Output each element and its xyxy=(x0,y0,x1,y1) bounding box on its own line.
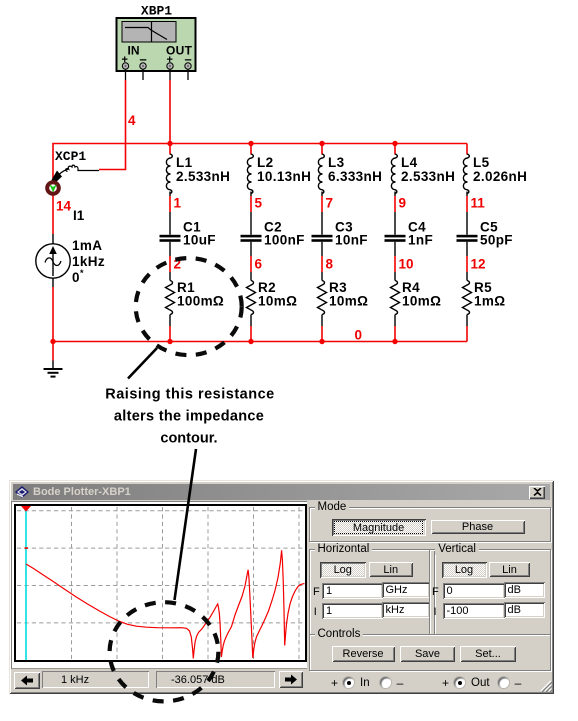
Mode group box xyxy=(309,507,552,543)
svg-text:2.533nH: 2.533nH xyxy=(176,169,230,184)
wire branch 5 top xyxy=(466,144,468,155)
op-amp-style instrument XBP1 (Bode plotter icon) xyxy=(117,18,196,71)
label F horizontal xyxy=(313,586,320,598)
pin stub OUT+ xyxy=(169,69,171,80)
svg-text:10mΩ: 10mΩ xyxy=(402,294,441,309)
wire junction at (251,143.5) xyxy=(248,141,253,146)
wire node 2 segment xyxy=(169,242,171,281)
svg-text:1mΩ: 1mΩ xyxy=(474,294,505,309)
svg-text:2.026nH: 2.026nH xyxy=(473,169,527,184)
button Log vertical (pressed) xyxy=(442,562,487,579)
capacitor C4 labels xyxy=(408,220,433,248)
capacitor C2 labels xyxy=(264,220,305,248)
svg-text:100nF: 100nF xyxy=(264,233,305,248)
label I horizontal xyxy=(314,606,317,618)
status field magnitude xyxy=(156,671,275,688)
wire node 11 segment xyxy=(466,192,468,235)
inductor L2 xyxy=(247,154,253,194)
wire from XBP1 IN+ down xyxy=(99,80,126,170)
status field frequency xyxy=(42,671,149,688)
wire branch 2 top xyxy=(250,144,252,155)
inductor L1 labels xyxy=(176,155,230,184)
svg-text:6: 6 xyxy=(255,257,263,272)
annotation text xyxy=(105,387,274,447)
wire node 9 segment xyxy=(394,192,396,235)
capacitor C1 labels xyxy=(183,220,216,248)
svg-text:2: 2 xyxy=(174,257,182,272)
svg-text:I1: I1 xyxy=(73,208,85,223)
button Log horizontal (pressed) xyxy=(320,562,366,579)
inductor L5 xyxy=(463,154,469,194)
svg-text:1mA: 1mA xyxy=(72,238,102,253)
Horizontal group box xyxy=(309,549,435,636)
svg-text:100mΩ: 100mΩ xyxy=(177,294,224,309)
wire node 12 segment xyxy=(466,242,468,281)
svg-text:2.533nH: 2.533nH xyxy=(401,169,455,184)
button Lin horizontal xyxy=(369,562,414,577)
svg-text:10uF: 10uF xyxy=(183,233,216,248)
svg-text:1nF: 1nF xyxy=(408,233,433,248)
wire node 10 segment xyxy=(394,242,396,281)
button Lin vertical xyxy=(489,562,530,577)
annotation pointer line from dashed circle to text xyxy=(128,348,157,379)
pin stub OUT- xyxy=(187,69,189,80)
resistor R1 labels xyxy=(177,280,224,309)
annotation dashed circle around R1 xyxy=(136,258,242,355)
unit field dB lower xyxy=(504,602,545,619)
inductor L4 labels xyxy=(401,155,455,184)
svg-text:IN: IN xyxy=(128,44,140,58)
wire branch 1 bottom xyxy=(169,315,171,342)
unit field GHz xyxy=(382,582,431,599)
svg-text:L4: L4 xyxy=(401,155,418,170)
button Set... xyxy=(460,646,516,663)
pin stub IN+ xyxy=(125,69,127,80)
wire bottom rail xyxy=(53,287,467,342)
svg-text:50pF: 50pF xyxy=(480,233,513,248)
wire top rail xyxy=(53,144,467,235)
current probe XCP1 clamp ring xyxy=(47,182,59,194)
button Save xyxy=(400,646,455,663)
current source I1 xyxy=(36,234,70,287)
Controls group box xyxy=(309,634,552,671)
cursor marker triangle xyxy=(21,506,31,512)
svg-text:11: 11 xyxy=(471,196,486,211)
wire branch 3 bottom xyxy=(321,315,323,342)
resistor R1 xyxy=(166,281,175,315)
svg-text:9: 9 xyxy=(399,196,407,211)
svg-text:6.333nH: 6.333nH xyxy=(328,169,382,184)
wire branch 4 top xyxy=(394,144,396,155)
cursor crossing dash xyxy=(25,547,29,549)
svg-text:10.13nH: 10.13nH xyxy=(257,169,311,184)
capacitor C2 xyxy=(241,235,262,242)
wire node 1 segment xyxy=(169,192,171,235)
wire branch 3 top xyxy=(321,144,323,155)
inductor L2 labels xyxy=(257,155,311,184)
inductor L3 labels xyxy=(328,155,382,184)
button Phase xyxy=(431,520,525,535)
In polarity radio group xyxy=(331,676,403,689)
svg-text:10mΩ: 10mΩ xyxy=(258,294,297,309)
capacitor C5 labels xyxy=(480,220,513,248)
Bode plot display panel xyxy=(11,501,307,669)
svg-text:1kHz: 1kHz xyxy=(72,254,105,269)
resistor R3 labels xyxy=(329,280,368,309)
wire junction at (395,341.5) xyxy=(392,339,397,344)
wire junction at (395,143.5) xyxy=(392,141,397,146)
resistor R5 labels xyxy=(474,280,505,309)
input F horizontal xyxy=(322,583,383,599)
Out polarity radio group xyxy=(442,676,521,689)
capacitor C3 xyxy=(312,235,333,242)
status row: right arrow button xyxy=(279,671,303,688)
Bode Plotter window title bar xyxy=(13,484,550,500)
current probe XCP1 pigtail wire xyxy=(52,165,100,184)
svg-text:1: 1 xyxy=(174,196,182,211)
svg-text:7: 7 xyxy=(326,196,334,211)
wire junction at (251,341.5) xyxy=(248,339,253,344)
unit field dB upper xyxy=(504,582,545,599)
svg-text:5: 5 xyxy=(255,196,263,211)
svg-text:14: 14 xyxy=(56,199,72,214)
label I vertical xyxy=(434,606,437,618)
svg-text:12: 12 xyxy=(471,257,486,272)
wire node 8 segment xyxy=(321,242,323,281)
Vertical group box xyxy=(429,549,551,636)
svg-text:10mΩ: 10mΩ xyxy=(329,294,368,309)
svg-text:L3: L3 xyxy=(328,155,345,170)
wire junction at (170,341.5) xyxy=(167,339,172,344)
capacitor C1 xyxy=(160,235,181,242)
svg-text:8: 8 xyxy=(326,257,334,272)
svg-text:10nF: 10nF xyxy=(335,233,368,248)
ground xyxy=(44,361,63,377)
wire branch 1 top xyxy=(169,144,171,155)
capacitor C4 xyxy=(385,235,406,242)
input I vertical xyxy=(443,603,505,619)
wire from XBP1 OUT+ to top rail xyxy=(169,80,171,144)
svg-text:0: 0 xyxy=(72,270,80,285)
wire junction at (322,341.5) xyxy=(319,339,324,344)
button Reverse xyxy=(332,646,395,663)
input F vertical xyxy=(443,583,505,599)
wire branch 5 bottom xyxy=(466,315,468,342)
svg-text:4: 4 xyxy=(128,113,136,128)
bode magnitude curve xyxy=(26,550,305,658)
wire branch 2 bottom xyxy=(250,315,252,342)
svg-text:L1: L1 xyxy=(176,155,193,170)
svg-text:0: 0 xyxy=(355,328,363,343)
capacitor C3 labels xyxy=(335,220,368,248)
inductor L5 labels xyxy=(473,155,527,184)
svg-text:contour.: contour. xyxy=(160,431,217,447)
svg-text:XBP1: XBP1 xyxy=(141,4,172,19)
resistor R2 labels xyxy=(258,280,297,309)
svg-text:Raising this resistance: Raising this resistance xyxy=(105,387,274,403)
wire junction at (322,143.5) xyxy=(319,141,324,146)
inductor L1 xyxy=(166,154,172,194)
pin stub IN- xyxy=(142,69,144,80)
svg-text:alters the impedance: alters the impedance xyxy=(114,409,264,425)
status row: left arrow button xyxy=(14,672,40,689)
input I horizontal xyxy=(322,603,383,619)
svg-text:XCP1: XCP1 xyxy=(55,149,86,164)
capacitor C5 xyxy=(457,235,478,242)
inductor L3 xyxy=(318,154,324,194)
svg-text:L5: L5 xyxy=(473,155,490,170)
annotation dashed circle around resonance dip xyxy=(110,602,219,701)
wire node 7 segment xyxy=(321,192,323,235)
wire node 5 segment xyxy=(250,192,252,235)
wire to ground xyxy=(52,342,54,361)
resistor R5 xyxy=(463,281,472,315)
cursor line xyxy=(25,506,27,660)
wire junction at (53,341.5) xyxy=(50,339,55,344)
wire junction at (170,143.5) xyxy=(167,141,172,146)
svg-text:*: * xyxy=(80,268,84,278)
resistor R4 labels xyxy=(402,280,441,309)
resistor R3 xyxy=(318,281,327,315)
resistor R2 xyxy=(247,281,256,315)
wire node 6 segment xyxy=(250,242,252,281)
svg-text:10: 10 xyxy=(399,257,414,272)
annotation pointer line from text to bode plot xyxy=(175,449,197,600)
resistor R4 xyxy=(391,281,400,315)
button Magnitude (pressed) xyxy=(332,519,426,536)
window resize grip xyxy=(539,679,552,692)
unit field kHz xyxy=(382,602,431,619)
svg-text:L2: L2 xyxy=(257,155,273,170)
wire branch 4 bottom xyxy=(394,315,396,342)
inductor L4 xyxy=(391,154,397,194)
current source I1 value labels xyxy=(72,238,105,285)
label F vertical xyxy=(432,586,439,598)
